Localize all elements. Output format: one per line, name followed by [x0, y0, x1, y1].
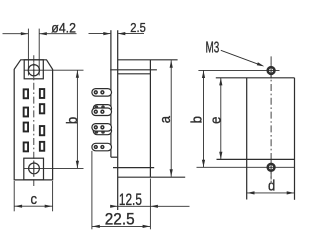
- b up arrow: [202, 71, 205, 78]
- c dim right arrow: [45, 205, 52, 208]
- a up arrow: [170, 60, 173, 67]
- pins: [92, 89, 112, 151]
- top hole boss rectangle: [24, 60, 43, 79]
- bottom hole boss rectangle: [24, 158, 44, 180]
- 2.5 right arrow (points left): [118, 32, 125, 35]
- e dim line: [220, 78, 222, 160]
- flange back line (continues as 12.5 extension): [117, 30, 119, 210]
- c dimension line: [14, 205, 52, 207]
- b dim down arrow: [76, 161, 79, 168]
- b down arrow: [202, 160, 205, 167]
- 2.5 dim line right tail: [118, 33, 144, 35]
- bottom hole circle: [29, 163, 40, 174]
- solid crosshair through bottom circle: [33, 161, 35, 177]
- b dim line: [76, 70, 78, 168]
- dia4.2 dim line right segment: [39, 33, 76, 35]
- 2.5 dim line left tail: [89, 33, 111, 35]
- c extension line left: [13, 181, 15, 211]
- M3 leader line: [221, 50, 262, 65]
- pin 3 front: [92, 124, 112, 132]
- pin 2 ghost (behind, above): [93, 105, 111, 113]
- 22.5 extension line left (pin face): [91, 151, 93, 229]
- bottom screw center line (b extension): [197, 166, 295, 168]
- body right edge: [149, 60, 151, 177]
- flange bottom step: [111, 156, 118, 158]
- upper crossing line: [110, 69, 157, 71]
- top screw crosshair vertical: [270, 63, 272, 79]
- 12.5 right arrow (outside, points left): [151, 205, 158, 208]
- solid crosshair through top circle: [33, 63, 35, 79]
- b dim up arrow: [76, 70, 79, 77]
- b extension line bottom (through bottom hole center): [24, 167, 84, 169]
- svg-text:c: c: [31, 191, 38, 207]
- upper inner line: [118, 73, 151, 75]
- d right arrow: [287, 191, 294, 194]
- top M3 screw ring: [268, 67, 275, 74]
- svg-text:b: b: [189, 116, 205, 124]
- vertical center line (dash-dot): [33, 55, 35, 186]
- svg-text:ø4.2: ø4.2: [51, 20, 76, 36]
- 22.5 right arrow: [143, 225, 150, 228]
- svg-text:2.5: 2.5: [130, 20, 146, 35]
- e down arrow: [219, 152, 222, 159]
- b dim line (right view): [203, 70, 205, 167]
- M3 leader arrowhead: [257, 62, 265, 66]
- 12.5 left arrow (outside, points right): [110, 205, 117, 208]
- svg-text:M3: M3: [206, 38, 220, 56]
- middle view dimensions: [89, 34, 190, 227]
- 22.5 dim line: [92, 225, 150, 227]
- a dim line: [170, 60, 172, 177]
- 22.5 / 12.5 extension line right: [149, 179, 151, 230]
- c dim left arrow: [15, 205, 22, 208]
- d left arrow: [247, 191, 254, 194]
- svg-text:12.5: 12.5: [119, 191, 142, 209]
- b extension line top (through top hole center): [24, 69, 84, 71]
- top screw center line (b extension): [198, 69, 279, 71]
- dia4.2 right arrow: [39, 32, 46, 35]
- bottom plate edge: [217, 158, 295, 160]
- left wall (continues as d extension): [246, 78, 248, 200]
- dia4.2 left arrow: [21, 32, 28, 35]
- pin 3 ghost (behind, below): [93, 127, 111, 135]
- bottom screw crosshair vertical: [270, 160, 272, 180]
- pin 1: [92, 89, 112, 97]
- d dim line: [247, 192, 295, 194]
- body top edge (extends right as a-extension): [118, 59, 178, 61]
- body outline: [14, 60, 52, 180]
- slot contacts: left column: [23, 88, 46, 152]
- vertical center line (dash-dot): [270, 56, 272, 182]
- svg-text:22.5: 22.5: [105, 211, 135, 229]
- pin 4: [92, 143, 112, 151]
- dia 4.2 extension line right: [38, 29, 40, 76]
- slot inner whites: [25, 90, 44, 150]
- top plate edge: [216, 77, 295, 79]
- svg-text:a: a: [157, 116, 173, 124]
- slot contacts: right column: [39, 88, 45, 99]
- dia4.2 dim line left segment: [3, 33, 29, 35]
- a down arrow: [170, 169, 173, 176]
- 2.5 left arrow (points right): [103, 32, 110, 35]
- bottom M3 screw ring: [268, 164, 275, 171]
- body bottom edge (extends right as a-extension): [118, 176, 186, 178]
- flange front line: [110, 30, 112, 157]
- 12.5 dim right tail: [110, 205, 189, 207]
- 22.5 left arrow: [92, 225, 99, 228]
- e up arrow: [219, 78, 222, 85]
- top hole circle: [28, 65, 39, 76]
- svg-text:e: e: [208, 116, 224, 124]
- svg-text:d: d: [268, 178, 275, 194]
- svg-text:b: b: [64, 117, 80, 125]
- dia 4.2 extension line left: [27, 29, 29, 76]
- right edge (continues as d extension): [294, 78, 296, 200]
- dimension arrows / texts : left view: [15, 32, 79, 208]
- lower inner line: [113, 167, 154, 169]
- c extension line right: [52, 181, 54, 211]
- pin 2 front: [92, 108, 112, 116]
